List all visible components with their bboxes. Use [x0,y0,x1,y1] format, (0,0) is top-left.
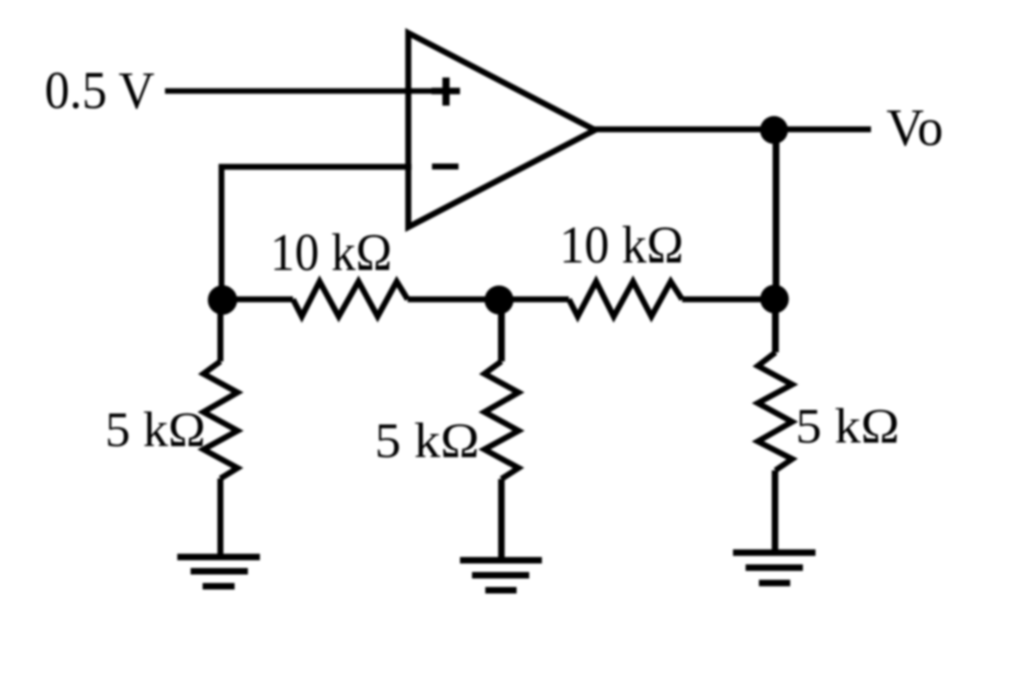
svg-text:5 kΩ: 5 kΩ [796,398,900,454]
svg-text:10 kΩ: 10 kΩ [270,224,392,282]
svg-text:0.5 V: 0.5 V [45,62,155,120]
svg-text:5 kΩ: 5 kΩ [105,401,205,457]
svg-text:Vo: Vo [886,99,943,157]
svg-text:5 kΩ: 5 kΩ [375,412,480,468]
svg-text:10 kΩ: 10 kΩ [560,217,684,275]
